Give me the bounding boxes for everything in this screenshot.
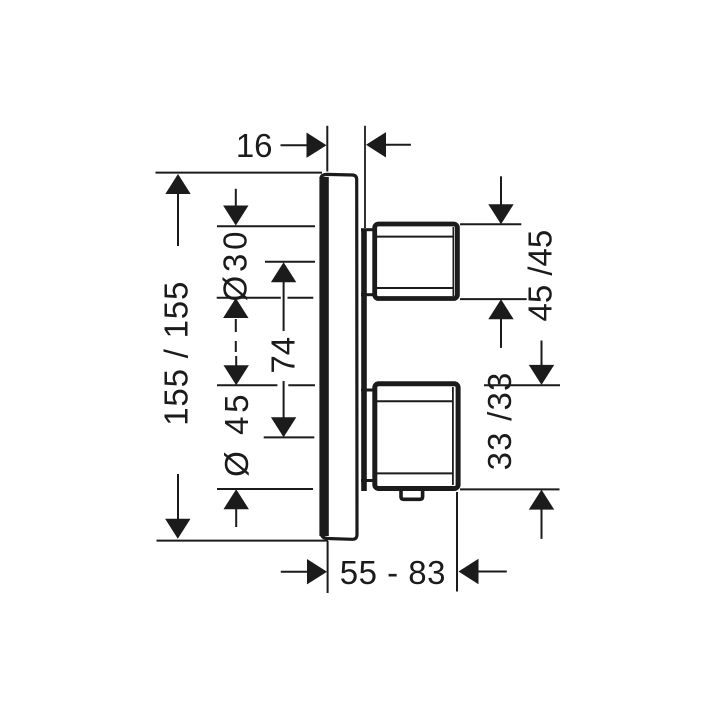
dim 33/33 arrow tail bottom	[541, 509, 543, 539]
dim dia45 arrowhead top	[224, 365, 249, 385]
dim 33/33 arrow tail top	[541, 341, 543, 367]
dim dia30 arrowhead bottom	[223, 298, 248, 318]
dim dia30 arrowhead top	[223, 206, 248, 226]
reference line 74 top	[265, 261, 315, 263]
reference line dia45 bottom	[217, 488, 313, 490]
svg-text:16: 16	[236, 127, 273, 164]
top handle upper groove line	[377, 236, 453, 238]
reference line dia45 top	[217, 384, 315, 386]
dim 74 arrowhead bottom	[271, 417, 296, 437]
dim dia30 arrow tail top	[235, 189, 237, 206]
reference line dia30 top	[217, 225, 315, 227]
dim 45/45 arrow tail bottom	[500, 319, 502, 348]
dim 16 arrow tail left	[281, 144, 308, 146]
dim dia30 arrow tail bottom dashes	[235, 319, 237, 352]
svg-text:55 - 83: 55 - 83	[340, 554, 446, 591]
dim 55-83 arrowhead right-pointing	[307, 559, 327, 584]
top handle neck bottom edge	[361, 293, 373, 296]
dim 45/45 arrowhead top	[488, 204, 513, 224]
bottom handle upper groove line	[377, 400, 453, 402]
dim 55-83 arrow tail left	[281, 571, 308, 573]
dim 45/45 arrow tail top	[500, 176, 502, 205]
dim 155 arrowhead bottom	[165, 519, 190, 539]
top handle lower groove line	[377, 287, 453, 289]
top handle outer body	[375, 224, 458, 299]
reference line dia30 bottom	[217, 297, 314, 299]
svg-text:Ø30: Ø30	[216, 228, 253, 302]
dim 45/45 arrowhead bottom	[488, 299, 513, 319]
bottom handle lower groove line	[377, 472, 453, 474]
dim dia45 arrow tail bottom	[235, 509, 237, 528]
top handle neck top edge	[361, 228, 373, 231]
svg-text:Ø 45: Ø 45	[218, 391, 255, 477]
escutcheon plate left edge	[319, 177, 328, 536]
dim 16 arrowhead right-pointing	[307, 133, 327, 158]
bottom handle neck top edge	[361, 389, 373, 392]
bottom handle front rim line	[452, 387, 454, 485]
extension line 16 left	[326, 126, 328, 172]
reference line 155 bottom	[157, 540, 329, 542]
dim 74 arrow tail top	[283, 282, 285, 332]
dim 55-83 arrow tail right	[478, 571, 507, 573]
top handle front rim line	[452, 227, 454, 296]
dim 33/33 arrowhead top	[529, 365, 554, 385]
extension line bottom left	[327, 541, 329, 593]
svg-text:33 /33: 33 /33	[481, 371, 518, 470]
svg-text:45 /45: 45 /45	[522, 230, 559, 322]
reference line 155 top	[156, 172, 323, 174]
dim 74 arrow tail bottom	[283, 381, 285, 418]
dim 16 arrow tail right	[385, 144, 411, 146]
reference line 74 bottom	[264, 436, 315, 438]
bottom handle tab	[401, 491, 423, 499]
reference line 33/33 top	[484, 384, 560, 386]
dim 155 arrowhead top	[165, 174, 190, 194]
sleeve band between plate and handles	[361, 230, 367, 492]
dim 155 arrow tail top	[177, 193, 179, 246]
bottom handle outer body	[375, 384, 458, 489]
bottom handle neck bottom edge	[361, 479, 373, 482]
reference line 45/45 top	[460, 223, 521, 225]
dim 55-83 arrowhead left-pointing	[459, 559, 479, 584]
extension line 16 right	[364, 126, 366, 228]
dim 155 arrow tail bottom	[177, 474, 179, 520]
dim 33/33 arrowhead bottom	[529, 490, 554, 510]
dim dia45 arrow tail top	[235, 356, 237, 366]
svg-text:74: 74	[265, 337, 302, 374]
extension line bottom right	[456, 492, 458, 592]
dim 74 arrowhead top	[271, 262, 296, 282]
svg-text:155 / 155: 155 / 155	[158, 281, 195, 426]
reference line 45/45 bottom	[460, 298, 527, 300]
dim dia45 arrowhead bottom	[224, 489, 249, 509]
reference line 33/33 bottom	[460, 488, 560, 490]
escutcheon plate outline (top, right, bottom)	[321, 174, 357, 539]
dim 16 arrowhead left-pointing	[366, 132, 386, 157]
